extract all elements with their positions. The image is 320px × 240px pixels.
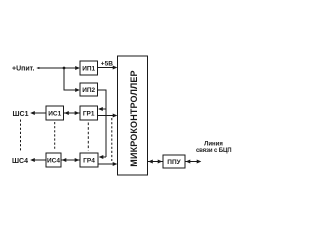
dashed continuation under ИС1 (54, 122, 56, 151)
wire +Uпит. to ИП1 (38, 67, 80, 69)
wire ИП2 bus into ГР4 (100, 156, 107, 158)
block ИС4 (46, 153, 61, 167)
wire ГР1 to microcontroller (98, 115, 117, 117)
junction dot (63, 67, 66, 70)
svg-text:ШС4: ШС4 (12, 158, 28, 165)
block ППУ (163, 155, 185, 168)
svg-text:ИС4: ИС4 (47, 157, 60, 164)
svg-text:ИП1: ИП1 (82, 65, 95, 72)
wire ИС1 - ГР1 bidirectional (64, 112, 81, 114)
svg-text:ГР1: ГР1 (83, 110, 95, 117)
dashed continuation of ГР outputs (111, 118, 113, 161)
wire ИС4 - ГР4 bidirectional (61, 159, 80, 161)
wire ИП2 bus into ГР1 (99, 108, 106, 110)
svg-text:+5В: +5В (101, 61, 113, 68)
svg-text:Линия: Линия (204, 142, 223, 148)
svg-text:ШС1: ШС1 (13, 111, 29, 118)
wire ИС1 to ШС1 (32, 112, 47, 114)
svg-text:+Uпит.: +Uпит. (12, 66, 34, 73)
dashed continuation under ГР1 (87, 123, 89, 151)
block ГР4 (80, 153, 98, 167)
block ИС1 (46, 106, 64, 120)
svg-text:ИС1: ИС1 (48, 110, 61, 117)
svg-text:связи с БЦП: связи с БЦП (196, 148, 231, 154)
svg-text:ГР4: ГР4 (83, 157, 95, 164)
svg-text:ИП2: ИП2 (82, 87, 95, 94)
wire ГР4 to microcontroller (98, 163, 117, 165)
svg-text:МИКРОКОНТРОЛЛЕР: МИКРОКОНТРОЛЛЕР (129, 70, 139, 166)
wire ППУ to БЦП line bidirectional (185, 161, 201, 163)
block microcontroller (118, 56, 148, 175)
wire ИП2 output bus (98, 90, 107, 157)
block ГР1 (80, 106, 98, 120)
wire microcontroller - ППУ bidirectional (148, 161, 164, 163)
dashed continuation under ШС1 (20, 120, 22, 151)
wire +5В from ИП1 to microcontroller (98, 67, 117, 69)
block ИП2 (80, 83, 98, 96)
svg-text:ППУ: ППУ (167, 159, 181, 166)
block ИП1 (80, 61, 98, 75)
wire branch to ИП2 (64, 68, 79, 90)
wire ИС4 to ШС4 (32, 159, 47, 161)
